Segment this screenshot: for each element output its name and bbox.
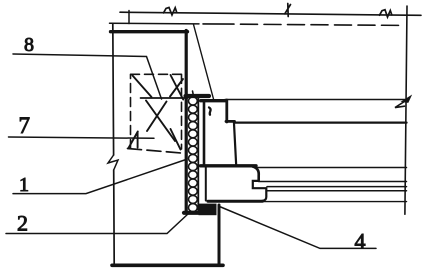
leader for label 4 (220, 207, 377, 249)
ceiling reference line solid part (110, 22, 200, 25)
sealant backer coils (189, 97, 198, 212)
blocking top hatch (133, 75, 184, 100)
sill bottom edge (112, 263, 223, 267)
break mark on wall face (108, 155, 118, 170)
tick at left end of top line (128, 11, 130, 24)
window frame head: right face lower (234, 122, 236, 166)
svg-text:4: 4 (355, 228, 366, 253)
sealant strip top cap (186, 94, 210, 98)
sash rail rounded shoulder (253, 167, 259, 181)
wall left face upper segment (112, 24, 115, 156)
glass bottom line (267, 186, 407, 188)
sealant strip bottom cap (184, 211, 201, 215)
blocking corner ticks (129, 129, 181, 150)
wall left face lower segment (113, 170, 116, 266)
leader for label 7 (9, 137, 155, 138)
window frame head: top face (201, 99, 226, 102)
sash rail glazing rebate (253, 181, 267, 201)
leader for label 2 (6, 213, 189, 234)
window frame head: bottom face (201, 164, 257, 167)
leader for label 1 (13, 160, 186, 194)
svg-text:2: 2 (17, 211, 28, 236)
blocking 7 dashed outline (131, 74, 184, 149)
glass top line (259, 181, 407, 183)
break mark left on top line (164, 7, 177, 14)
sill gasket block (199, 204, 217, 216)
window frame head: left face (203, 101, 206, 166)
ceiling reference line dashed part (203, 23, 234, 25)
blocking bottom X hatch (146, 101, 175, 142)
sealant strip right edge (197, 97, 199, 211)
right break border (405, 6, 407, 214)
window frame head: step (226, 120, 235, 123)
sill riser (218, 205, 221, 266)
wall top edge (111, 30, 188, 33)
wall right face (jamb) (185, 31, 188, 213)
top boundary line (120, 12, 421, 15)
tick above top cap (193, 91, 194, 96)
svg-text:1: 1 (19, 174, 29, 196)
sash rail left face (205, 167, 207, 201)
svg-text:8: 8 (24, 34, 34, 56)
leader for label 8 (13, 54, 162, 99)
sash top elevation line (256, 167, 407, 169)
break mark right on top line (380, 10, 392, 17)
break mark on head elevation line (402, 96, 411, 103)
frame soffit elevation line (234, 121, 406, 123)
glazing bead line (266, 190, 406, 192)
sash rail bottom face (208, 200, 263, 203)
window frame head: right face upper (225, 100, 228, 122)
svg-text:7: 7 (19, 113, 31, 138)
sash bottom elevation line (217, 201, 407, 203)
frame head elevation line (225, 99, 407, 101)
projection line from ceiling to frame corner (194, 25, 214, 100)
anchor mark inside frame (209, 108, 211, 115)
blocking divider line (141, 97, 188, 99)
break mark middle on top line (285, 4, 291, 17)
